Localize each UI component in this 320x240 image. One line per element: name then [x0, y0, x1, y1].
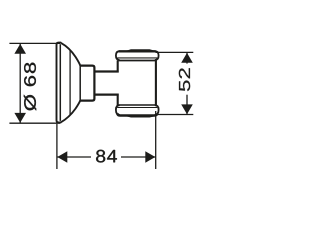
bottom cap top edge [119, 104, 156, 106]
dim 52 line upper [186, 53, 188, 64]
dim O68 top extension line [9, 42, 60, 44]
bell bottom curve [61, 100, 81, 122]
top cap left arc [116, 51, 120, 60]
top cap bottom edge [119, 60, 156, 62]
bottom cap inner line [117, 107, 157, 109]
label O68 digits [24, 63, 36, 86]
bottom cap sag [127, 116, 154, 117]
top cap crown [127, 50, 154, 51]
stem bottom edge [94, 93, 118, 95]
label O68 diameter sign [24, 95, 36, 111]
arrow O68 down [14, 113, 26, 123]
label 52 [179, 68, 190, 91]
body left wall lower [117, 94, 119, 106]
dim 84 right extension line [155, 111, 157, 169]
label 84 [96, 150, 117, 163]
bottom cap bottom edge [117, 114, 157, 116]
dim 52 top extension line [156, 51, 194, 53]
arrow O68 up [14, 44, 26, 54]
top cap inner line [117, 57, 157, 59]
top cap right arc [155, 51, 159, 60]
escutcheon plate inner line [59, 44, 61, 121]
dim 84 line left segment [57, 156, 91, 158]
escutcheon plate left face [57, 43, 62, 123]
top cap top edge [119, 50, 156, 52]
hub [80, 66, 94, 101]
bell step line [69, 50, 71, 115]
dim O68 line [19, 43, 21, 123]
bottom cap right arc [155, 105, 159, 115]
arrow 52 up [181, 53, 193, 63]
bell end line / hub left edge [79, 65, 81, 100]
arrow 84 right [145, 151, 155, 163]
arrow 52 down [181, 104, 193, 114]
dim 52 line lower [186, 95, 188, 115]
dim O68 bottom extension line [9, 122, 60, 124]
arrow 84 left [57, 151, 67, 163]
body right wall [155, 60, 157, 105]
bell top curve [61, 43, 81, 66]
dim 84 left extension line [56, 124, 58, 169]
body left wall upper [117, 60, 119, 72]
stem top edge [94, 70, 118, 72]
dim 52 bottom extension line [156, 114, 194, 116]
dim 84 line right segment [121, 156, 156, 158]
bottom cap left arc [116, 105, 120, 115]
